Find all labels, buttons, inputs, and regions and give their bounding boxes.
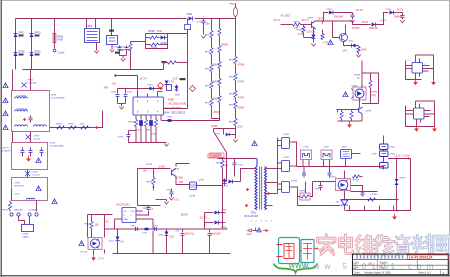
- TL431 shunt regulator: [341, 200, 348, 205]
- logo red connector: [300, 250, 302, 252]
- logo green brace: [274, 264, 318, 273]
- svg-text:CP61: CP61: [131, 226, 137, 228]
- svg-text:15.02V: 15.02V: [307, 30, 316, 34]
- wire 12V rail riser: [204, 213, 206, 230]
- svg-text:VD53: VD53: [386, 9, 392, 11]
- inductor winding4: [34, 125, 47, 127]
- resistor RP14: [210, 99, 213, 106]
- wire between inductors: [383, 150, 385, 152]
- svg-text:4.5v: 4.5v: [112, 83, 117, 86]
- svg-text:Sheet 1 of 1: Sheet 1 of 1: [419, 272, 432, 275]
- svg-text:150K: 150K: [238, 106, 245, 110]
- capacitor CP28 22uF: [125, 89, 127, 94]
- ground under RP57: [358, 53, 360, 55]
- wire top pin3 branch: [158, 91, 163, 93]
- wire QP50 collector rail: [316, 21, 371, 25]
- standby controller U51 NCP1251 box: [122, 208, 136, 223]
- capacitor inside box A: [30, 116, 32, 118]
- svg-text:Date:: Date:: [355, 272, 361, 275]
- logo box left: [279, 238, 300, 264]
- inductor LP02 winding2: [14, 110, 27, 112]
- connector pin stub 4: [393, 206, 395, 211]
- wire filter box feed: [345, 159, 347, 167]
- common-mode choke LP01: [86, 19, 88, 29]
- output filter IC box: [341, 150, 352, 159]
- svg-text:470K: 470K: [238, 63, 245, 67]
- svg-text:FP101: FP101: [2, 210, 9, 212]
- regulator1 pin stubs: [415, 55, 417, 63]
- node HV sense wire: [214, 128, 236, 130]
- svg-text:RP48: RP48: [217, 163, 223, 165]
- svg-text:RP24: RP24: [229, 122, 235, 124]
- resistor RP69 on rail: [368, 198, 376, 201]
- title block company text: [356, 256, 404, 258]
- wire diagonal to primary: [214, 129, 227, 159]
- resistor RP09 snubber lower: [151, 43, 159, 46]
- capacitor CP72 below rail: [329, 167, 331, 173]
- EMI filter box A: [12, 91, 50, 132]
- resistor RP31 below IC: [144, 120, 147, 127]
- wire chain A: [211, 19, 213, 31]
- svg-text:GND: GND: [124, 219, 129, 221]
- node marker aux: [159, 87, 162, 90]
- svg-text:LP66: LP66: [372, 154, 378, 156]
- svg-text:DP20: DP20: [35, 51, 42, 54]
- resistor RP52 4.7R: [303, 25, 305, 27]
- svg-text:(+12V): (+12V): [403, 154, 411, 158]
- node dot 12V: [396, 158, 398, 160]
- svg-text:CP27: CP27: [111, 92, 117, 94]
- resistor fusible vertical: [8, 203, 11, 210]
- capacitor CP27 22uF: [117, 89, 119, 94]
- svg-text:-0.31: -0.31: [174, 199, 180, 202]
- wire secondary tap 3: [265, 193, 278, 195]
- spark gap between A and B: [12, 132, 14, 143]
- wire terminals to connector: [19, 217, 25, 225]
- svg-text:FB102: FB102: [230, 4, 237, 6]
- svg-text:DP68: DP68: [292, 181, 298, 183]
- resistor RP18 560K: [218, 79, 221, 86]
- svg-text:470K: 470K: [238, 80, 245, 84]
- wire bead1 pins to rail: [302, 160, 304, 167]
- logo inner red element: [303, 244, 312, 260]
- wire HV branch down: [226, 159, 228, 177]
- svg-text:A: A: [443, 271, 445, 275]
- svg-text:CON5A: CON5A: [29, 209, 37, 212]
- svg-text:1K: 1K: [152, 186, 155, 189]
- wire DP66 right to rail: [291, 142, 296, 167]
- resistor RP20 470K: [234, 57, 237, 64]
- wire opto feed vertical: [344, 171, 346, 179]
- diode DP08 snubber: [161, 36, 165, 40]
- svg-text:RP23: RP23: [229, 105, 235, 107]
- wire secondary output rail: [297, 166, 381, 168]
- resistor RP32 below IC: [154, 120, 157, 127]
- wire 12V sense drop: [396, 159, 398, 211]
- svg-text:X2-474/310VAC: X2-474/310VAC: [50, 145, 65, 148]
- svg-text:ZP06: ZP06: [175, 95, 181, 97]
- wire QP53 emitter to rail: [361, 114, 363, 122]
- svg-text:QP48: QP48: [190, 196, 196, 198]
- svg-text:470K: 470K: [157, 30, 163, 33]
- svg-text:CP13: CP13: [50, 143, 56, 145]
- svg-text:GND: GND: [247, 234, 252, 236]
- svg-text:RP165: RP165: [353, 180, 360, 182]
- capacitor CP36 on VCC wire: [167, 119, 172, 122]
- transistor QP46: [172, 169, 177, 177]
- wire bias input: [281, 24, 293, 26]
- svg-text:DP69: DP69: [400, 178, 406, 180]
- svg-text:14.7V: 14.7V: [140, 77, 147, 81]
- inductor LP65 pill: [380, 151, 389, 157]
- bulk capacitor CP03: [234, 159, 236, 163]
- diode DP18 1N4008: [14, 53, 18, 57]
- ground top standby: [164, 202, 168, 205]
- label +5.3V boxed: [210, 153, 224, 158]
- svg-text:T5A 250V: T5A 250V: [14, 209, 24, 212]
- wire zener to bottom rail: [117, 247, 119, 254]
- svg-text:QP45: QP45: [199, 180, 205, 182]
- wire opto2 base rail: [337, 109, 359, 111]
- wire AC top bus right of series diode: [195, 18, 236, 20]
- wire secondary tap 1: [265, 168, 278, 170]
- capacitor CP33 below IC: [140, 121, 143, 126]
- wire VCC top: [115, 75, 138, 77]
- wire AC top bus: [16, 18, 187, 20]
- watermark site name glyphs: [318, 235, 336, 255]
- svg-text:RP10: RP10: [205, 35, 211, 37]
- diode DP47 on leg: [223, 180, 227, 184]
- wire vcc vertical to IC: [137, 76, 139, 97]
- capacitor CP65: [147, 207, 151, 209]
- wire standby main rail: [105, 228, 228, 230]
- svg-text:(1K): (1K): [372, 94, 377, 97]
- capacitor across drain: [185, 25, 191, 30]
- wire drop x152 to bottom: [152, 219, 154, 229]
- svg-text:CP33: CP33: [137, 130, 143, 132]
- title block top separator: [353, 259, 449, 261]
- wire bridge right column: [31, 19, 33, 70]
- svg-text:LP166: LP166: [371, 194, 378, 196]
- wire feedback network left: [313, 181, 336, 183]
- svg-text:AC-DET: AC-DET: [281, 14, 291, 18]
- resistor RP13: [210, 82, 213, 89]
- diode DP06 loop: [223, 129, 225, 135]
- resistor RP10: [210, 31, 213, 38]
- svg-text:FSL136MRIN: FSL136MRIN: [165, 106, 182, 110]
- svg-text:560K: 560K: [222, 43, 229, 47]
- svg-text:1.7V: 1.7V: [169, 80, 175, 84]
- capacitor B3: [41, 148, 43, 151]
- diode DP05 primary snubber: [226, 177, 228, 182]
- wire chain B: [219, 19, 221, 29]
- wire opto bottom to ground: [93, 250, 95, 255]
- wire bridge bottom bus: [23, 69, 131, 71]
- AC terminal circle 2: [17, 213, 20, 216]
- diode DP19 1N4008: [30, 34, 34, 38]
- wire snubber to drain line: [168, 33, 188, 35]
- svg-text:RP31: RP31: [147, 130, 153, 132]
- wire feedback bottom rail: [341, 199, 399, 201]
- svg-text:RP51: RP51: [85, 224, 91, 226]
- transformer core lines: [259, 167, 261, 210]
- feedback resistor RP66: [353, 175, 360, 178]
- resistor RP60: [340, 112, 343, 119]
- wire secondary tap 2: [265, 182, 278, 184]
- capacitor symbol on rail 1: [135, 227, 137, 231]
- wire caps common to ground: [118, 103, 126, 105]
- warning triangle T4: [3, 125, 8, 130]
- capacitor B1: [22, 148, 24, 151]
- diode VD11 on bus: [189, 17, 193, 21]
- svg-text:(NCP1251): (NCP1251): [117, 203, 130, 207]
- transistor QP52: [340, 34, 348, 42]
- sense resistor row wire: [50, 111, 103, 128]
- svg-text:X2-474: X2-474: [34, 139, 41, 141]
- svg-text:RP21: RP21: [229, 77, 235, 79]
- resistor RP24 220: [234, 119, 237, 126]
- svg-text:CP04: CP04: [238, 165, 244, 167]
- ground below CX2: [110, 50, 114, 53]
- svg-text:DP19: DP19: [35, 32, 42, 35]
- svg-text:RP03: RP03: [120, 47, 126, 49]
- svg-text:PC123: PC123: [81, 252, 88, 254]
- svg-text:RP30: RP30: [129, 122, 135, 124]
- svg-text:CP08: CP08: [34, 136, 40, 138]
- IC bottom pin wires: [135, 115, 137, 120]
- resistor RP15 560K: [218, 29, 221, 36]
- node marker VCC: [114, 74, 117, 77]
- wire filter to inductor chain: [352, 153, 361, 155]
- wire drain to IC: [164, 108, 188, 110]
- svg-text:100uF,1y: 100uF,1y: [185, 233, 196, 236]
- svg-text:1K: 1K: [357, 77, 360, 80]
- capacitor CP34 below IC: [150, 121, 153, 126]
- zener VD56 12V: [166, 229, 168, 232]
- electrolytic CP63: [182, 229, 184, 233]
- wire chain A joins B: [212, 118, 220, 120]
- svg-text:470K: 470K: [58, 39, 64, 42]
- svg-text:DP66: DP66: [284, 134, 290, 136]
- svg-text:FP04: FP04: [28, 80, 34, 82]
- svg-text:10n: 10n: [206, 23, 211, 26]
- svg-text:BIN - 3531.25E13: BIN - 3531.25E13: [165, 111, 186, 115]
- svg-text:220: 220: [238, 125, 243, 129]
- svg-text:Size: Size: [355, 263, 360, 265]
- wire opto2 supply vertical: [361, 61, 363, 89]
- resistor RP26 on return: [168, 61, 177, 64]
- resistor RP06: [69, 126, 77, 129]
- svg-text:LG-101R: LG-101R: [28, 83, 37, 85]
- wire opto2 bottom rail: [338, 120, 363, 122]
- inductor bottom of box C: [27, 198, 35, 199]
- wire opto2 divider left: [337, 110, 339, 113]
- ground arrow output bus: [394, 214, 396, 217]
- logo red exit arrow: [314, 248, 318, 250]
- svg-text:345: 345: [104, 86, 109, 90]
- wire output connector bus: [346, 210, 398, 212]
- svg-text:Rev 1.0: Rev 1.0: [380, 267, 389, 270]
- svg-text:15.2V: 15.2V: [362, 20, 369, 24]
- ground below choke: [94, 51, 98, 54]
- diode DP65: [215, 211, 219, 215]
- svg-text:RP13: RP13: [205, 86, 211, 88]
- wire B bottom to VCC node: [219, 119, 221, 121]
- resistor RP48 2W: [221, 161, 224, 168]
- svg-text:NC1633 5A06: NC1633 5A06: [169, 102, 187, 106]
- svg-text:1N4148: 1N4148: [369, 27, 378, 30]
- ground under ZD50: [311, 44, 315, 47]
- wire opto right: [351, 186, 363, 192]
- svg-text:QP50: QP50: [308, 18, 314, 20]
- resistor RP59 loop: [370, 73, 372, 81]
- wire between inductors 2: [383, 157, 385, 163]
- wire DP66 left tabs: [278, 140, 280, 142]
- wire snubber mid: [146, 37, 150, 39]
- svg-text:470K: 470K: [213, 110, 220, 114]
- wire regulator2 top loop: [416, 101, 435, 127]
- svg-text:L12V: L12V: [395, 154, 401, 158]
- svg-text:RP47: RP47: [167, 190, 173, 192]
- zener ZD03: [166, 85, 168, 89]
- ferrite bead LP67: [321, 150, 332, 160]
- warning triangle bias: [328, 40, 333, 45]
- wire 5.3V feed vertical: [222, 158, 224, 161]
- mosfet QP45 package: [190, 182, 197, 190]
- svg-text:21.7V: 21.7V: [274, 18, 281, 22]
- wire QP46 collector net: [176, 164, 190, 167]
- wire IC pin to chain B: [162, 120, 220, 122]
- warning triangle right of box C: [52, 199, 57, 204]
- svg-text:(+5.3V): (+5.3V): [212, 154, 221, 158]
- wire opto2 right loop: [362, 73, 379, 104]
- ground below Y-caps: [121, 59, 125, 62]
- wire aux rail: [138, 88, 163, 90]
- svg-text:68uF/25V: 68uF/25V: [211, 233, 222, 236]
- logo inner red rect: [284, 244, 294, 259]
- svg-text:VD11: VD11: [187, 13, 193, 16]
- inductor LP64 pill: [380, 144, 389, 150]
- ground ps-on: [169, 198, 173, 201]
- inductor LP66 pill: [380, 163, 389, 169]
- Y-capacitor CY02: [126, 46, 128, 48]
- AC terminal circle 1: [10, 213, 13, 216]
- wire cap to ground: [171, 197, 173, 198]
- spark gap between B and C: [27, 170, 29, 178]
- svg-text:QP53: QP53: [366, 111, 372, 113]
- svg-text:CON1: CON1: [23, 234, 30, 236]
- resistor RP16 560K: [218, 46, 221, 53]
- wire chain C: [235, 19, 237, 57]
- optocoupler U51 PC123: [88, 238, 102, 250]
- net arrow GND right filled: [263, 230, 266, 232]
- node arrow primary left: [246, 188, 249, 191]
- wire left leg zener: [117, 229, 119, 237]
- svg-text:COM(TDK): COM(TDK): [17, 109, 28, 111]
- svg-text:RP20: RP20: [229, 60, 235, 62]
- jumper open circle O: [53, 49, 56, 52]
- spark gap above box A: [12, 70, 14, 91]
- transistor QP50: [312, 21, 317, 30]
- wire regulator2 left rail: [406, 106, 435, 127]
- svg-text:RP50: RP50: [294, 21, 300, 23]
- red arrow inside box B: [28, 156, 30, 159]
- resistor RP22 470K: [234, 91, 237, 98]
- node marker sense row: [95, 126, 98, 129]
- wire standby bottom rail: [113, 253, 231, 255]
- rectifier diode pack DP67: [282, 161, 290, 172]
- wire 12V right drop to connector: [398, 159, 411, 211]
- svg-text:4.7R: 4.7R: [323, 41, 329, 45]
- svg-text:RP08: RP08: [149, 30, 156, 33]
- warning triangle inside box C: [36, 186, 41, 191]
- wire secondary tap bottom: [265, 205, 273, 207]
- ground arrow regulator2 left: [416, 126, 418, 129]
- wire caps rail to vcc: [118, 88, 138, 90]
- svg-text:CP06: CP06: [51, 95, 57, 97]
- zener ZD50: [313, 28, 315, 35]
- wire bias mid: [301, 24, 312, 26]
- wire U51 right pins: [136, 210, 143, 212]
- wire Y-caps common: [120, 55, 127, 57]
- wire ps-on top rail: [138, 168, 171, 170]
- resistor RP53 4.7R: [322, 21, 324, 24]
- ground arrow opto: [93, 255, 95, 258]
- resistor RP61: [350, 112, 353, 119]
- svg-text:15.65V: 15.65V: [352, 26, 360, 30]
- svg-text:UU-10.5: UU-10.5: [33, 175, 41, 177]
- svg-text:CP35: CP35: [118, 137, 124, 139]
- wire snubber return: [241, 169, 257, 182]
- svg-text:14.7V: 14.7V: [380, 19, 387, 23]
- svg-text:0.48V: 0.48V: [177, 177, 184, 180]
- svg-text:Monday, August 14, 2006: Monday, August 14, 2006: [365, 272, 392, 275]
- wire bridge left column: [15, 19, 17, 70]
- resistor RP19 470K: [218, 96, 221, 103]
- diode VD53 1N4648: [390, 11, 394, 15]
- node diamond open 1: [158, 83, 164, 89]
- wire QP46 emitter to mosfet: [176, 177, 190, 185]
- svg-text:QP46: QP46: [174, 169, 180, 171]
- wire after VP52: [334, 12, 353, 14]
- title block part number red box: [407, 255, 448, 260]
- connector pin stub 3: [379, 206, 381, 211]
- resistor RP30 below IC: [134, 120, 137, 127]
- ground under IC: [164, 144, 168, 147]
- AC terminal circle 4: [35, 213, 38, 216]
- wire DP68 tabs: [278, 183, 280, 185]
- capacitor B2: [30, 148, 32, 151]
- ferrite bead LP66: [301, 150, 312, 160]
- wire discharge resistor branch: [54, 19, 56, 49]
- svg-text:22uF: 22uF: [127, 92, 133, 94]
- transformer secondary winding: [265, 167, 267, 210]
- svg-text:LK-PL390211A: LK-PL390211A: [409, 256, 433, 260]
- wire snubber loop: [146, 34, 168, 49]
- diode DP20 1N4008: [30, 53, 34, 57]
- svg-text:RP68: RP68: [300, 191, 306, 193]
- resistor RP57 100K: [358, 46, 360, 47]
- wire fuse branch top: [235, 17, 237, 19]
- svg-text:LP01: LP01: [87, 25, 93, 28]
- wire diode out row 1: [205, 212, 214, 214]
- rectifier diode pack DP66: [282, 138, 290, 149]
- junction oval on rail: [144, 228, 149, 231]
- capacitor CX2 box: [111, 19, 113, 36]
- node marker tap3: [267, 192, 270, 195]
- warning triangle opto: [79, 241, 84, 246]
- svg-text:1N4148: 1N4148: [334, 15, 344, 19]
